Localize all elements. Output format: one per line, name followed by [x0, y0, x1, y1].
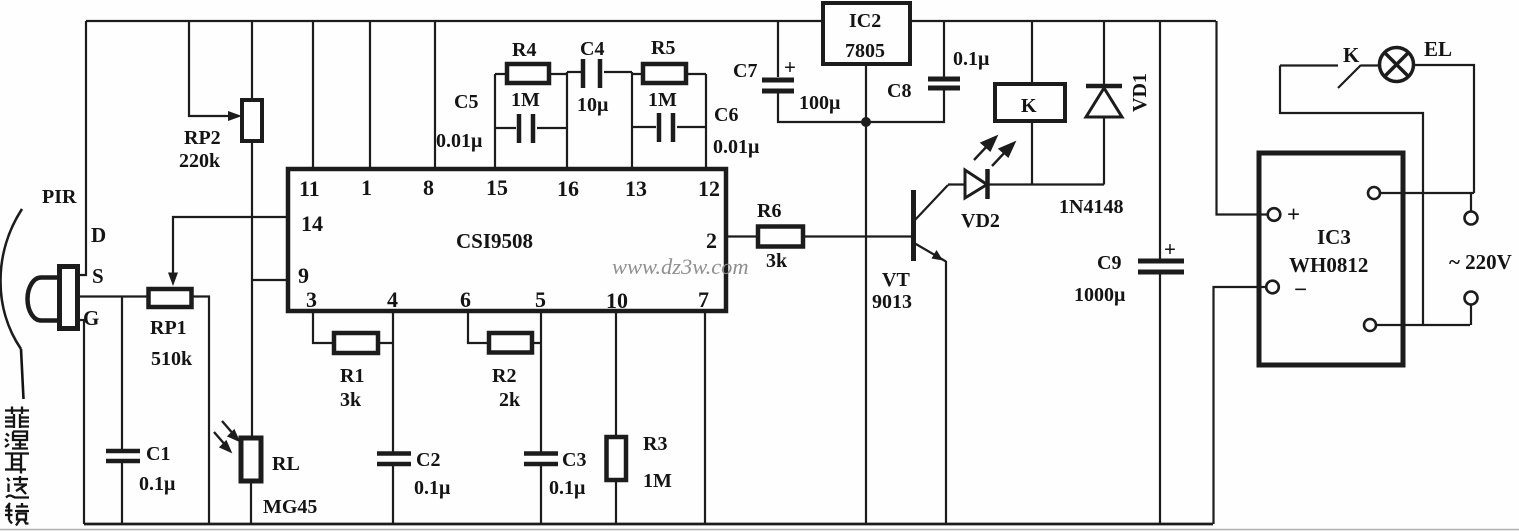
- svg-text:VD2: VD2: [961, 210, 1000, 232]
- svg-text:WH0812: WH0812: [1289, 253, 1368, 277]
- svg-text:0.01μ: 0.01μ: [436, 130, 483, 152]
- svg-text:CSI9508: CSI9508: [456, 229, 533, 253]
- svg-text:4: 4: [387, 287, 398, 312]
- svg-text:7: 7: [698, 287, 709, 312]
- svg-text:C5: C5: [454, 91, 478, 113]
- svg-text:S: S: [92, 264, 104, 288]
- svg-text:13: 13: [625, 176, 647, 201]
- svg-text:R1: R1: [340, 365, 364, 387]
- svg-text:+: +: [1287, 202, 1300, 227]
- svg-text:G: G: [83, 306, 99, 330]
- svg-text:11: 11: [299, 176, 320, 201]
- svg-text:8: 8: [423, 175, 434, 200]
- svg-text:100μ: 100μ: [799, 92, 841, 114]
- svg-text:1N4148: 1N4148: [1059, 196, 1123, 218]
- svg-text:R4: R4: [512, 39, 536, 61]
- svg-text:R5: R5: [651, 37, 675, 59]
- svg-text:0.1μ: 0.1μ: [139, 473, 176, 495]
- svg-text:RP2: RP2: [184, 127, 221, 149]
- svg-text:510k: 510k: [151, 348, 193, 370]
- svg-text:9: 9: [298, 263, 309, 288]
- svg-text:IC2: IC2: [849, 10, 881, 32]
- svg-text:C1: C1: [146, 443, 170, 465]
- svg-text:K: K: [1343, 43, 1360, 67]
- svg-text:R2: R2: [492, 365, 516, 387]
- svg-text:0.01μ: 0.01μ: [713, 136, 760, 158]
- svg-text:1M: 1M: [648, 89, 677, 111]
- svg-text:6: 6: [460, 287, 471, 312]
- svg-text:3: 3: [306, 287, 317, 312]
- svg-text:14: 14: [301, 211, 323, 236]
- svg-text:EL: EL: [1424, 37, 1452, 61]
- svg-text:−: −: [1294, 277, 1307, 302]
- svg-text:0.1μ: 0.1μ: [414, 477, 451, 499]
- svg-text:10μ: 10μ: [577, 94, 609, 116]
- svg-text:9013: 9013: [872, 291, 912, 313]
- svg-text:1: 1: [361, 175, 372, 200]
- svg-text:2: 2: [706, 228, 717, 253]
- svg-text:10: 10: [606, 288, 628, 313]
- svg-text:1M: 1M: [511, 89, 540, 111]
- svg-text:+: +: [784, 55, 796, 79]
- svg-text:1M: 1M: [643, 470, 672, 492]
- svg-text:RL: RL: [272, 453, 300, 475]
- svg-text:~ 220V: ~ 220V: [1449, 250, 1512, 274]
- svg-text:PIR: PIR: [42, 186, 77, 208]
- svg-text:1000μ: 1000μ: [1074, 284, 1126, 306]
- svg-text:www.dz3w.com: www.dz3w.com: [612, 254, 749, 279]
- svg-text:3k: 3k: [766, 250, 788, 272]
- svg-text:D: D: [91, 223, 106, 247]
- svg-text:+: +: [1164, 237, 1176, 261]
- svg-text:16: 16: [557, 176, 579, 201]
- svg-text:7805: 7805: [845, 40, 885, 62]
- svg-text:C8: C8: [887, 80, 911, 102]
- svg-text:C7: C7: [733, 60, 757, 82]
- svg-text:RP1: RP1: [150, 317, 187, 339]
- svg-text:C6: C6: [714, 104, 738, 126]
- svg-text:K: K: [1021, 95, 1037, 117]
- svg-text:R6: R6: [757, 200, 781, 222]
- svg-text:VD1: VD1: [1129, 73, 1151, 112]
- svg-text:0.1μ: 0.1μ: [549, 477, 586, 499]
- svg-text:C3: C3: [562, 449, 586, 471]
- svg-text:IC3: IC3: [1317, 225, 1351, 249]
- svg-text:2k: 2k: [499, 389, 521, 411]
- svg-text:MG45: MG45: [263, 496, 317, 518]
- svg-text:R3: R3: [643, 433, 667, 455]
- svg-text:C4: C4: [580, 38, 604, 60]
- svg-text:15: 15: [486, 175, 508, 200]
- svg-text:5: 5: [535, 287, 546, 312]
- svg-text:3k: 3k: [340, 389, 362, 411]
- svg-text:VT: VT: [882, 269, 910, 291]
- svg-text:220k: 220k: [179, 150, 221, 172]
- svg-text:C9: C9: [1097, 252, 1121, 274]
- svg-text:0.1μ: 0.1μ: [953, 48, 990, 70]
- svg-text:C2: C2: [416, 449, 440, 471]
- svg-text:12: 12: [698, 176, 720, 201]
